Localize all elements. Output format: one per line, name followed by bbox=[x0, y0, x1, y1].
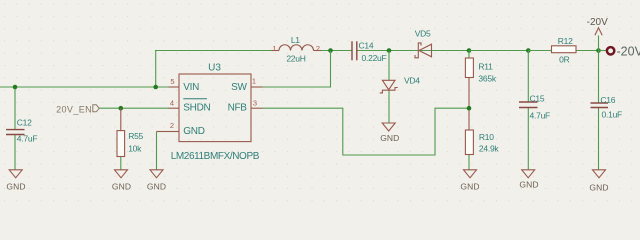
svg-text:U3: U3 bbox=[208, 62, 221, 73]
ground below VD4 bbox=[382, 123, 395, 131]
capacitor C14 bbox=[351, 41, 353, 60]
node: junction VIN riser / main rail bbox=[153, 85, 158, 90]
svg-text:NFB: NFB bbox=[228, 102, 248, 113]
capacitor C16 bbox=[591, 102, 609, 104]
svg-text:2: 2 bbox=[170, 121, 174, 130]
resistor R12 (horizontal) bbox=[552, 46, 577, 53]
power symbol -20V bbox=[595, 28, 602, 36]
svg-text:GND: GND bbox=[460, 182, 479, 192]
ground below C12 bbox=[9, 170, 22, 178]
ground below IC bbox=[150, 170, 163, 178]
wire: C15 junction to R12 left bbox=[528, 50, 551, 52]
wire: C15 top lead bbox=[527, 51, 529, 103]
resistor R55 bbox=[117, 131, 125, 157]
wire: output node to connector circle bbox=[599, 50, 607, 52]
svg-text:GND: GND bbox=[380, 133, 399, 143]
ground below C16 bbox=[593, 170, 606, 178]
diode VD4 (schottky, vertical) bbox=[382, 80, 395, 89]
node: junction L1/SW/C14 bbox=[328, 48, 333, 53]
svg-text:LM2611BMFX/NOPB: LM2611BMFX/NOPB bbox=[171, 151, 260, 162]
svg-text:VIN: VIN bbox=[183, 82, 199, 93]
wire: R11 top lead bbox=[468, 51, 470, 59]
node: junction VD5/R11 bbox=[467, 48, 472, 53]
svg-text:C12: C12 bbox=[17, 117, 32, 127]
wire: C12 bottom lead to ground bbox=[14, 135, 16, 170]
node: junction 20V_EN / R55 bbox=[119, 106, 124, 111]
svg-text:GND: GND bbox=[183, 126, 204, 137]
wire: IC GND pin to ground bbox=[156, 132, 158, 170]
svg-text:4.7uF: 4.7uF bbox=[530, 110, 551, 120]
svg-text:1: 1 bbox=[252, 77, 256, 86]
wire: power -20V stem bbox=[598, 36, 600, 51]
svg-text:0R: 0R bbox=[559, 55, 569, 65]
svg-text:2: 2 bbox=[316, 44, 320, 53]
wire: C14 right through VD5 to R11 bbox=[357, 50, 470, 52]
svg-text:0.22uF: 0.22uF bbox=[362, 53, 387, 63]
wire: VD4 anode lead bbox=[388, 51, 390, 81]
svg-text:3: 3 bbox=[253, 98, 257, 107]
svg-text:VD5: VD5 bbox=[415, 28, 431, 38]
IC U3 LM2611BMFX/NOPB body bbox=[179, 74, 251, 142]
svg-text:GND: GND bbox=[519, 180, 538, 190]
svg-text:R55: R55 bbox=[128, 131, 143, 141]
ground below R10 bbox=[464, 170, 477, 178]
inductor L1 bbox=[279, 45, 314, 51]
wire: R55 bottom lead bbox=[120, 157, 122, 170]
svg-text:10k: 10k bbox=[128, 144, 142, 154]
wire: R11 bottom to R10 top (component leads) bbox=[468, 78, 470, 131]
svg-text:GND: GND bbox=[147, 182, 166, 192]
wire: top rail to L1 pin1 bbox=[155, 50, 272, 52]
wire: L1 pin2 to C14 bbox=[321, 50, 352, 52]
diode VD5 (schottky, horizontal) bbox=[419, 44, 432, 57]
svg-text:R11: R11 bbox=[478, 61, 493, 71]
wire: C16 bottom lead bbox=[598, 108, 600, 170]
wire: SW pin net bbox=[263, 51, 331, 88]
svg-text:GND: GND bbox=[589, 183, 608, 193]
svg-text:1: 1 bbox=[272, 44, 276, 53]
wire: R10 bottom lead bbox=[468, 155, 470, 170]
connector circle output bbox=[607, 47, 614, 54]
svg-text:-20V: -20V bbox=[617, 44, 640, 58]
ground below C15 bbox=[522, 170, 535, 178]
svg-text:SW: SW bbox=[231, 82, 247, 93]
node: junction main rail / C12 bbox=[13, 85, 18, 90]
node: junction NFB / R11 / R10 bbox=[467, 106, 472, 111]
svg-text:20V_EN: 20V_EN bbox=[56, 104, 92, 114]
wire: NFB feedback net bbox=[263, 108, 470, 155]
wire: R55 top lead bbox=[120, 108, 122, 130]
capacitor C15 bbox=[519, 101, 538, 103]
wire: C12 top lead bbox=[14, 87, 16, 130]
wire: C16 top lead bbox=[598, 51, 600, 104]
svg-text:0.1uF: 0.1uF bbox=[602, 110, 623, 120]
pin 1 stub SW bbox=[251, 86, 263, 88]
wire: R11 junction to C15 junction bbox=[469, 50, 528, 52]
capacitor C12 bbox=[6, 129, 25, 131]
svg-text:R12: R12 bbox=[558, 36, 573, 46]
pin 5 stub VIN bbox=[169, 86, 180, 88]
svg-text:R10: R10 bbox=[479, 132, 494, 142]
svg-text:-20V: -20V bbox=[587, 17, 608, 28]
wire: 20V_EN label to SHDN pin bbox=[99, 107, 169, 109]
svg-text:GND: GND bbox=[6, 182, 25, 192]
node: junction C14/VD4/VD5 bbox=[387, 48, 392, 53]
pin 3 stub NFB bbox=[251, 107, 263, 109]
svg-text:C16: C16 bbox=[600, 95, 615, 105]
svg-text:GND: GND bbox=[112, 182, 131, 192]
resistor R11 bbox=[465, 58, 473, 78]
wire: C15 bottom lead bbox=[527, 108, 529, 170]
svg-text:VD4: VD4 bbox=[404, 75, 420, 85]
svg-text:C15: C15 bbox=[530, 93, 545, 103]
svg-text:L1: L1 bbox=[291, 35, 300, 45]
svg-text:SHDN: SHDN bbox=[183, 102, 210, 113]
ground below R55 bbox=[115, 170, 128, 178]
pin 2 stub GND bbox=[169, 131, 180, 133]
svg-text:365k: 365k bbox=[478, 73, 496, 83]
node: junction C15 top bbox=[526, 48, 531, 53]
wire: VD4 cathode lead to ground bbox=[388, 90, 390, 123]
wire: R12 right to output node bbox=[576, 50, 599, 52]
svg-text:22uH: 22uH bbox=[286, 53, 305, 63]
svg-text:5: 5 bbox=[170, 77, 174, 86]
svg-text:4: 4 bbox=[170, 98, 174, 107]
node: output junction bbox=[596, 48, 601, 53]
svg-text:4.7uF: 4.7uF bbox=[17, 133, 38, 143]
wire: main input rail y=87 bbox=[0, 86, 169, 88]
resistor R10 bbox=[465, 130, 473, 155]
wire: vertical VIN riser x=155.7 bbox=[155, 51, 157, 88]
svg-text:C14: C14 bbox=[359, 41, 374, 51]
svg-text:24.9k: 24.9k bbox=[479, 143, 500, 153]
pin 4 stub SHDN bbox=[169, 107, 180, 109]
